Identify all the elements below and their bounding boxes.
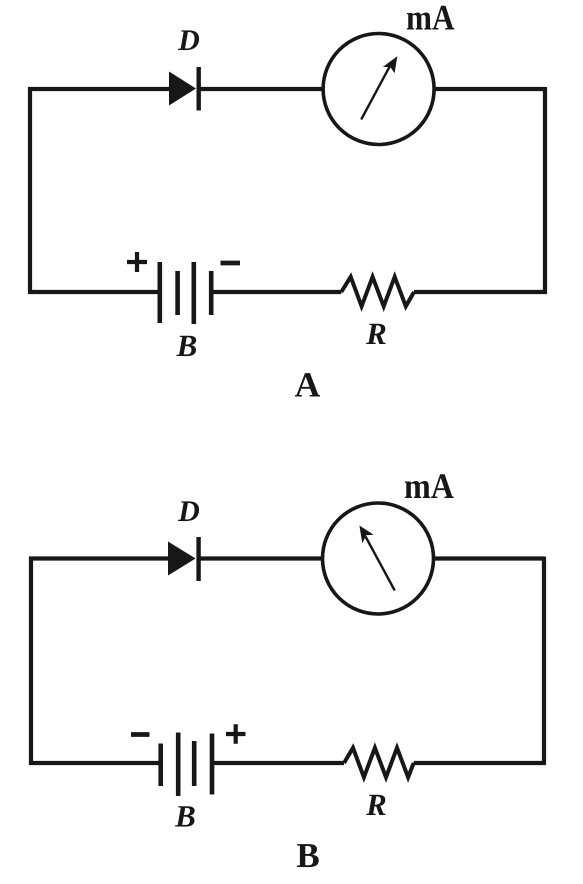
minus sign (battery B negative terminal) [131, 732, 150, 737]
label B (circuit B battery) [174, 799, 196, 834]
wire: A bottom-left segment (battery to left corner) [28, 290, 160, 294]
caption A [295, 365, 321, 405]
wire: B top-right segment (meter to right corner) [434, 556, 545, 560]
wire: B left vertical [29, 557, 33, 766]
label R (circuit B) [365, 787, 387, 822]
wire: B bottom segment (resistor to battery) [214, 761, 344, 765]
wire: B right vertical [542, 557, 546, 765]
caption B [296, 836, 319, 875]
svg-text:mA: mA [406, 0, 455, 38]
svg-text:B: B [174, 799, 196, 834]
diode D (circuit B) [168, 537, 199, 581]
wire: A left vertical [28, 87, 32, 294]
svg-text:B: B [176, 328, 198, 363]
wire: A top-left segment (left corner to diode anode) [28, 87, 169, 91]
ammeter U1 mA (circuit A) [323, 34, 434, 145]
wire: A top-right segment (meter to right corner) [434, 87, 545, 91]
wire: A right vertical [543, 87, 547, 293]
battery B (circuit A): plates long,short,long,short [160, 262, 211, 324]
svg-text:A: A [295, 365, 321, 405]
svg-text:D: D [177, 24, 200, 57]
wire: A bottom-right segment (right corner to resistor) [414, 290, 547, 294]
wire: B bottom-left segment (battery to left corner) [29, 761, 161, 765]
svg-text:D: D [177, 495, 200, 528]
diode D (circuit A) [169, 67, 199, 111]
wire: B top segment (diode cathode to meter) [199, 556, 323, 560]
resistor R (circuit B) [344, 748, 414, 778]
resistor R (circuit A) [341, 277, 414, 307]
label D (circuit B) [177, 495, 200, 528]
wire: B bottom-right segment (right corner to resistor) [414, 761, 546, 765]
battery B (circuit B): plates short,long,short,long [161, 733, 212, 797]
plus sign (battery B positive terminal) [226, 724, 246, 743]
wire: A bottom segment (resistor to battery) [213, 290, 341, 294]
label mA (circuit B) [404, 466, 454, 506]
label D (circuit A) [177, 24, 200, 57]
svg-text:R: R [365, 787, 387, 822]
label B (circuit A battery) [176, 328, 198, 363]
minus sign (battery A negative terminal) [221, 261, 241, 266]
svg-text:B: B [296, 836, 319, 875]
svg-text:mA: mA [404, 466, 454, 506]
wire: A top segment (diode cathode to meter) [199, 87, 323, 91]
label mA (circuit A) [406, 0, 455, 38]
label R (circuit A) [365, 316, 387, 351]
wire: B top-left segment (left corner to diode anode) [29, 556, 168, 560]
plus sign (battery A positive terminal) [127, 252, 147, 272]
ammeter U2 mA (circuit B) [323, 503, 434, 614]
svg-text:R: R [365, 316, 387, 351]
